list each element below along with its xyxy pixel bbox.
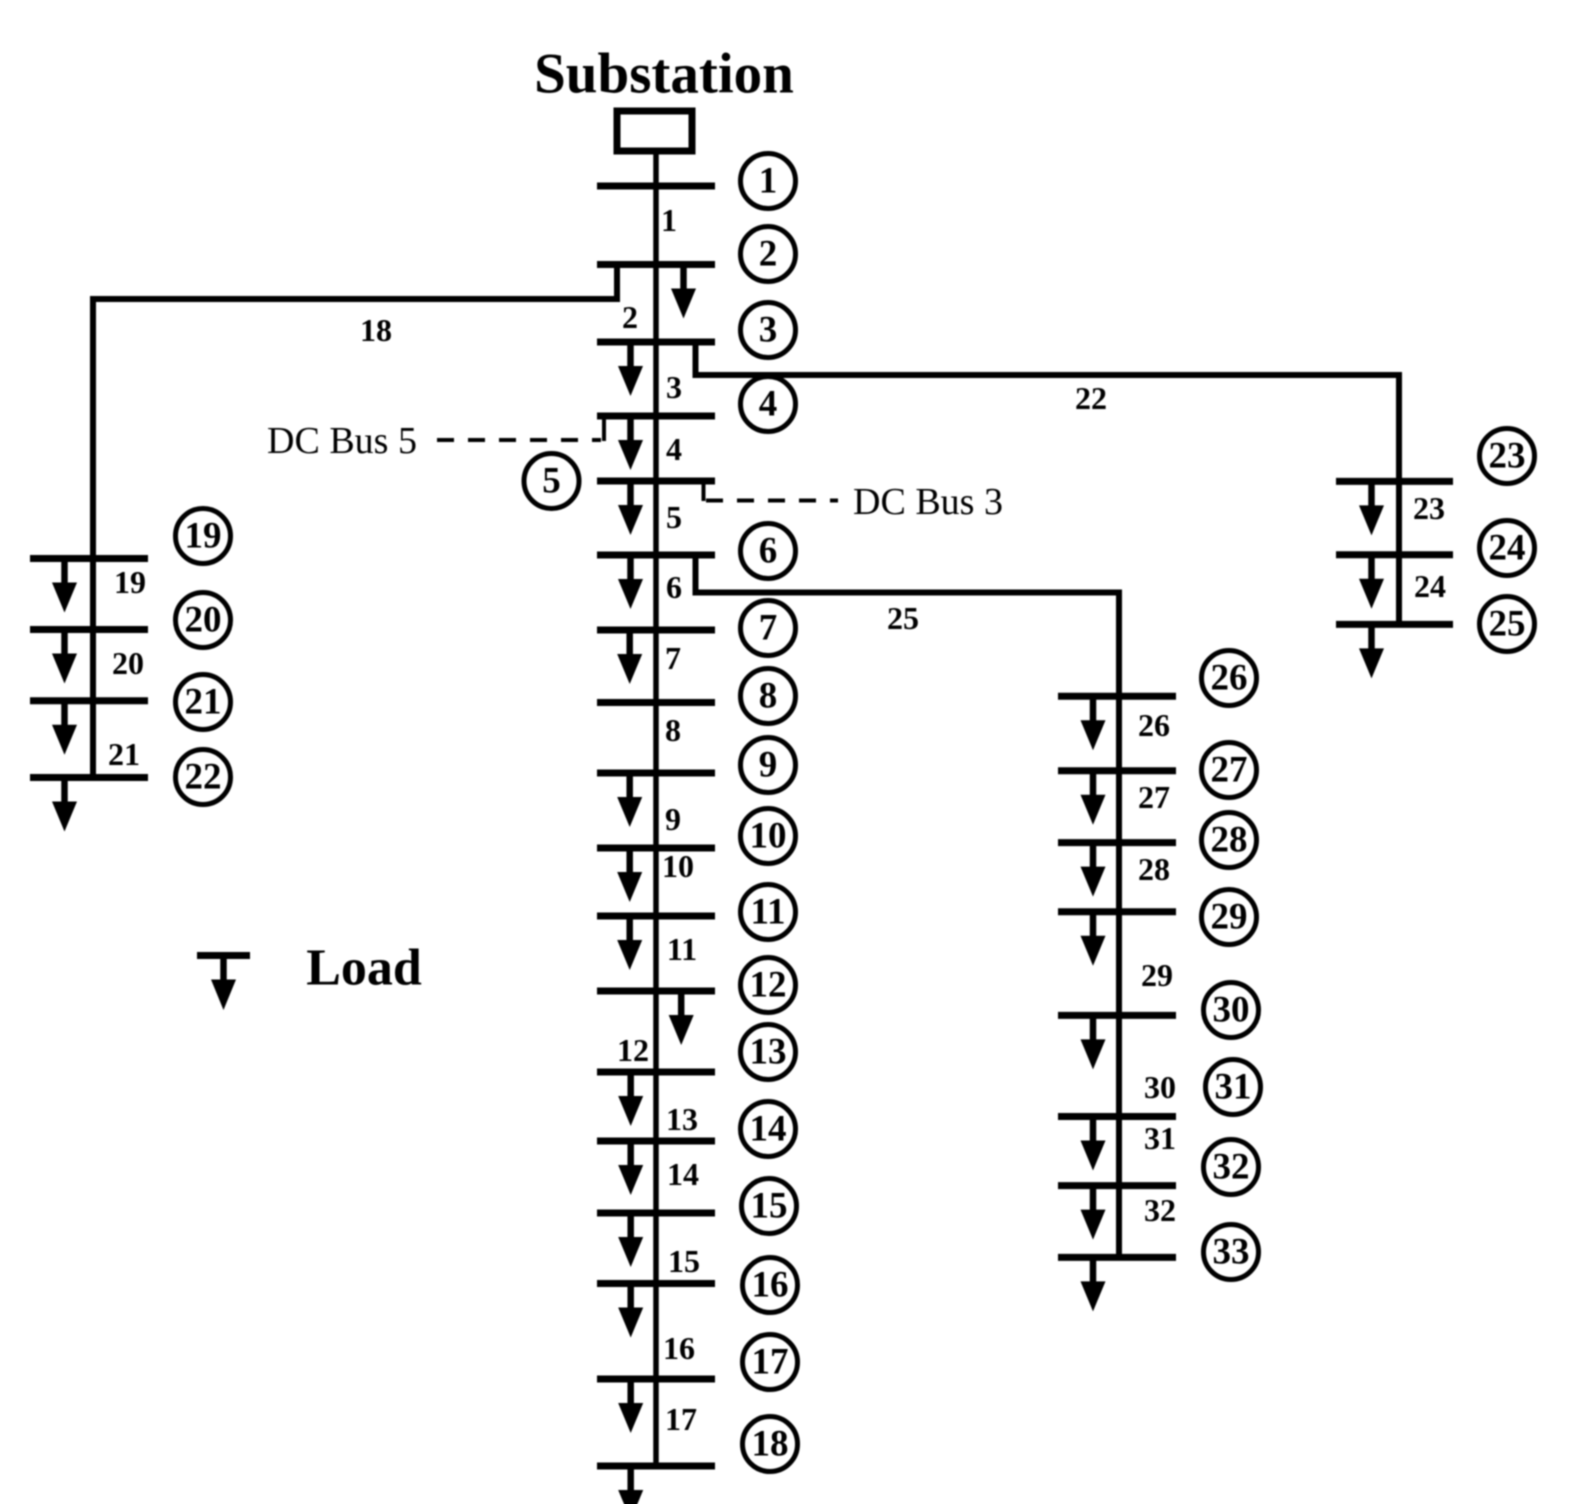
svg-text:17: 17	[752, 1342, 789, 1383]
svg-text:19: 19	[185, 516, 222, 557]
node circle bus 15	[742, 1179, 797, 1234]
load arrow at bus 22	[52, 778, 77, 832]
load arrow at bus 14	[618, 1141, 643, 1195]
svg-text:26: 26	[1211, 658, 1248, 699]
node circle bus 16	[743, 1258, 798, 1313]
bus 8 bar	[597, 699, 715, 706]
svg-text:29: 29	[1141, 957, 1173, 993]
wire line 25 branch from bus 6 to bus 26	[696, 555, 1120, 1257]
bus 9 bar	[597, 770, 715, 777]
svg-text:31: 31	[1215, 1067, 1252, 1108]
node circle bus 20	[176, 593, 231, 648]
bus 5 bar	[597, 478, 715, 485]
load arrow at bus 31	[1081, 1117, 1106, 1171]
wire line 18 branch from bus 2 to bus 19	[93, 265, 617, 780]
bus 31 bar	[1058, 1113, 1176, 1120]
load arrow at bus 13	[618, 1072, 643, 1126]
substation box	[617, 111, 692, 151]
bus 19 bar	[30, 555, 148, 562]
load arrow at bus 32	[1081, 1186, 1106, 1240]
svg-text:28: 28	[1138, 851, 1170, 887]
bus 2 bar	[597, 261, 715, 268]
bus 23 bar	[1336, 478, 1453, 485]
node circle bus 32	[1204, 1140, 1259, 1195]
node circle bus 9	[741, 738, 796, 793]
svg-text:6: 6	[759, 531, 778, 572]
bus 1 bar	[597, 183, 715, 190]
bus 21 bar	[30, 697, 148, 704]
svg-text:10: 10	[750, 816, 787, 857]
svg-text:30: 30	[1213, 990, 1250, 1031]
bus 13 bar	[597, 1069, 715, 1076]
svg-text:29: 29	[1211, 897, 1248, 938]
bus 30 bar	[1058, 1012, 1176, 1019]
load arrow at bus 7	[617, 630, 642, 684]
svg-text:11: 11	[667, 931, 697, 967]
load arrow at bus 10	[617, 848, 642, 902]
svg-text:8: 8	[665, 712, 681, 748]
svg-text:20: 20	[112, 645, 144, 681]
node circle bus 30	[1204, 983, 1259, 1038]
load arrow at bus 15	[618, 1213, 643, 1267]
bus 15 bar	[597, 1210, 715, 1217]
svg-text:15: 15	[668, 1243, 700, 1279]
load arrow at bus 24	[1359, 555, 1384, 609]
load arrow at bus 17	[618, 1379, 643, 1433]
node circle bus 11	[741, 885, 796, 940]
svg-text:Substation: Substation	[534, 43, 794, 106]
svg-text:DC Bus 5: DC Bus 5	[267, 420, 417, 462]
svg-text:1: 1	[759, 161, 778, 202]
svg-text:30: 30	[1144, 1069, 1176, 1105]
svg-text:18: 18	[752, 1424, 789, 1465]
svg-text:7: 7	[665, 640, 681, 676]
bus 33 bar	[1058, 1254, 1176, 1261]
svg-text:19: 19	[114, 564, 146, 600]
bus 7 bar	[597, 627, 715, 634]
node circle bus 31	[1206, 1060, 1261, 1115]
svg-text:1: 1	[661, 202, 677, 238]
svg-text:26: 26	[1138, 707, 1170, 743]
svg-text:15: 15	[751, 1186, 788, 1227]
main feeder wire	[653, 151, 659, 1466]
bus 20 bar	[30, 626, 148, 633]
load arrow at bus 5	[618, 481, 643, 535]
svg-text:20: 20	[185, 600, 222, 641]
node circle bus 5	[524, 454, 579, 509]
load arrow at bus 30	[1081, 1015, 1106, 1069]
svg-text:11: 11	[751, 892, 786, 933]
node circle bus 10	[741, 809, 796, 864]
node circle bus 26	[1202, 651, 1257, 706]
node circle bus 23	[1480, 429, 1535, 484]
svg-text:17: 17	[665, 1401, 697, 1437]
bus 11 bar	[597, 913, 715, 920]
svg-text:27: 27	[1138, 779, 1170, 815]
svg-text:18: 18	[360, 312, 392, 348]
bus 4 bar	[597, 413, 715, 420]
wire line 22 branch from bus 3 to bus 23	[696, 342, 1400, 624]
load arrow at bus 23	[1359, 481, 1384, 535]
node circle bus 27	[1202, 743, 1257, 798]
bus 14 bar	[597, 1138, 715, 1145]
svg-text:23: 23	[1413, 490, 1445, 526]
bus 3 bar	[597, 339, 715, 346]
bus 29 bar	[1058, 908, 1176, 915]
bus 17 bar	[597, 1376, 715, 1383]
load arrow at bus 6	[618, 555, 643, 609]
load arrow at bus 18	[618, 1466, 643, 1504]
svg-text:3: 3	[759, 310, 778, 351]
bus 25 bar	[1336, 621, 1453, 628]
load arrow at bus 29	[1081, 912, 1106, 966]
svg-text:13: 13	[750, 1032, 787, 1073]
svg-text:27: 27	[1211, 750, 1248, 791]
bus 22 bar	[30, 774, 148, 781]
load arrow at bus 20	[52, 630, 77, 684]
svg-text:32: 32	[1144, 1192, 1176, 1228]
bus 16 bar	[597, 1280, 715, 1287]
load arrow at bus 19	[52, 559, 77, 613]
node circle bus 6	[741, 524, 796, 579]
node circle bus 18	[743, 1417, 798, 1472]
svg-text:5: 5	[666, 499, 682, 535]
load arrow at bus 27	[1081, 771, 1106, 825]
svg-text:7: 7	[759, 608, 778, 649]
load arrow at bus 3	[618, 342, 643, 396]
node circle bus 24	[1480, 521, 1535, 576]
svg-text:9: 9	[759, 745, 778, 786]
load arrow at bus 12	[669, 991, 694, 1045]
svg-text:2: 2	[759, 234, 778, 275]
svg-text:22: 22	[1075, 380, 1107, 416]
bus 6 bar	[597, 552, 715, 559]
bus 32 bar	[1058, 1182, 1176, 1189]
svg-text:22: 22	[185, 757, 222, 798]
svg-text:21: 21	[185, 682, 222, 723]
load arrow at bus 21	[52, 701, 77, 755]
load arrow at bus 4	[618, 416, 643, 470]
load arrow at bus 26	[1081, 696, 1106, 750]
node circle bus 21	[176, 675, 231, 730]
svg-text:24: 24	[1489, 528, 1526, 569]
svg-text:32: 32	[1213, 1147, 1250, 1188]
node circle bus 13	[741, 1025, 796, 1080]
load arrow at bus 25	[1359, 624, 1384, 678]
node circle bus 1	[741, 154, 796, 209]
svg-text:9: 9	[665, 801, 681, 837]
svg-text:5: 5	[542, 461, 561, 502]
bus 26 bar	[1058, 693, 1176, 700]
bus 18 bar	[597, 1463, 715, 1470]
DC Bus 5 dashed link to bus 4	[437, 418, 604, 441]
bus 12 bar	[597, 988, 715, 995]
legend load symbol	[197, 956, 250, 1011]
svg-text:12: 12	[750, 965, 787, 1006]
node circle bus 3	[741, 303, 796, 358]
node circle bus 4	[741, 377, 796, 432]
bus 24 bar	[1336, 551, 1453, 558]
svg-text:31: 31	[1144, 1120, 1176, 1156]
load arrow at bus 16	[618, 1284, 643, 1338]
svg-text:13: 13	[666, 1101, 698, 1137]
node circle bus 22	[176, 750, 231, 805]
bus 28 bar	[1058, 839, 1176, 846]
svg-text:33: 33	[1213, 1232, 1250, 1273]
node circle bus 33	[1204, 1225, 1259, 1280]
node circle bus 8	[741, 669, 796, 724]
load arrow at bus 2	[671, 265, 696, 319]
svg-text:8: 8	[759, 676, 778, 717]
svg-text:16: 16	[752, 1265, 789, 1306]
svg-text:25: 25	[887, 600, 919, 636]
svg-text:23: 23	[1489, 436, 1526, 477]
load arrow at bus 9	[617, 773, 642, 827]
load arrow at bus 11	[617, 916, 642, 970]
svg-text:12: 12	[617, 1032, 649, 1068]
load arrow at bus 33	[1081, 1257, 1106, 1311]
bus 10 bar	[597, 845, 715, 852]
svg-text:4: 4	[666, 431, 682, 467]
svg-text:21: 21	[108, 736, 140, 772]
svg-text:10: 10	[662, 848, 694, 884]
node circle bus 7	[741, 601, 796, 656]
svg-text:DC Bus 3: DC Bus 3	[853, 481, 1003, 523]
svg-text:3: 3	[666, 369, 682, 405]
node circle bus 17	[743, 1335, 798, 1390]
svg-text:Load: Load	[306, 940, 422, 997]
node circle bus 14	[741, 1102, 796, 1157]
bus 27 bar	[1058, 767, 1176, 774]
load arrow at bus 28	[1081, 843, 1106, 897]
svg-text:14: 14	[667, 1156, 699, 1192]
svg-text:4: 4	[759, 384, 778, 425]
svg-text:25: 25	[1489, 604, 1526, 645]
node circle bus 29	[1202, 890, 1257, 945]
node circle bus 19	[176, 509, 231, 564]
node circle bus 12	[741, 958, 796, 1013]
svg-text:24: 24	[1414, 568, 1446, 604]
svg-text:28: 28	[1211, 820, 1248, 861]
node circle bus 2	[741, 227, 796, 282]
svg-text:6: 6	[666, 569, 682, 605]
svg-text:2: 2	[622, 299, 638, 335]
node circle bus 25	[1480, 597, 1535, 652]
svg-text:14: 14	[750, 1109, 787, 1150]
svg-text:16: 16	[663, 1330, 695, 1366]
DC Bus 3 dashed link to bus 5	[704, 483, 839, 501]
node circle bus 28	[1202, 813, 1257, 868]
